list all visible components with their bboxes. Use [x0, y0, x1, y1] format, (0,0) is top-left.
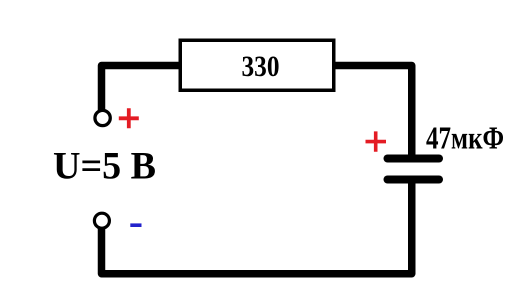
- + terminal polarity mark (red): [119, 108, 139, 128]
- terminal circle + (top): [95, 110, 110, 125]
- svg-text:U=5 В: U=5 В: [53, 145, 156, 188]
- capacitor + polarity mark (red): [366, 131, 387, 151]
- terminal circle - (bottom): [94, 213, 109, 228]
- wire bottom: from capacitor bottom, along bottom, up to - terminal: [102, 181, 412, 274]
- resistor R1 (box): [180, 40, 334, 90]
- capacitor C1 top plate: [388, 155, 440, 163]
- wire top-right: from resistor R1 to capacitor top: [333, 66, 412, 157]
- svg-text:47мкФ: 47мкФ: [426, 121, 504, 156]
- wire top-left: from + terminal up and right to resistor R1: [102, 66, 182, 111]
- - terminal polarity mark (blue): [130, 223, 141, 227]
- svg-text:330: 330: [242, 50, 280, 83]
- capacitor C1 bottom plate: [388, 176, 440, 184]
